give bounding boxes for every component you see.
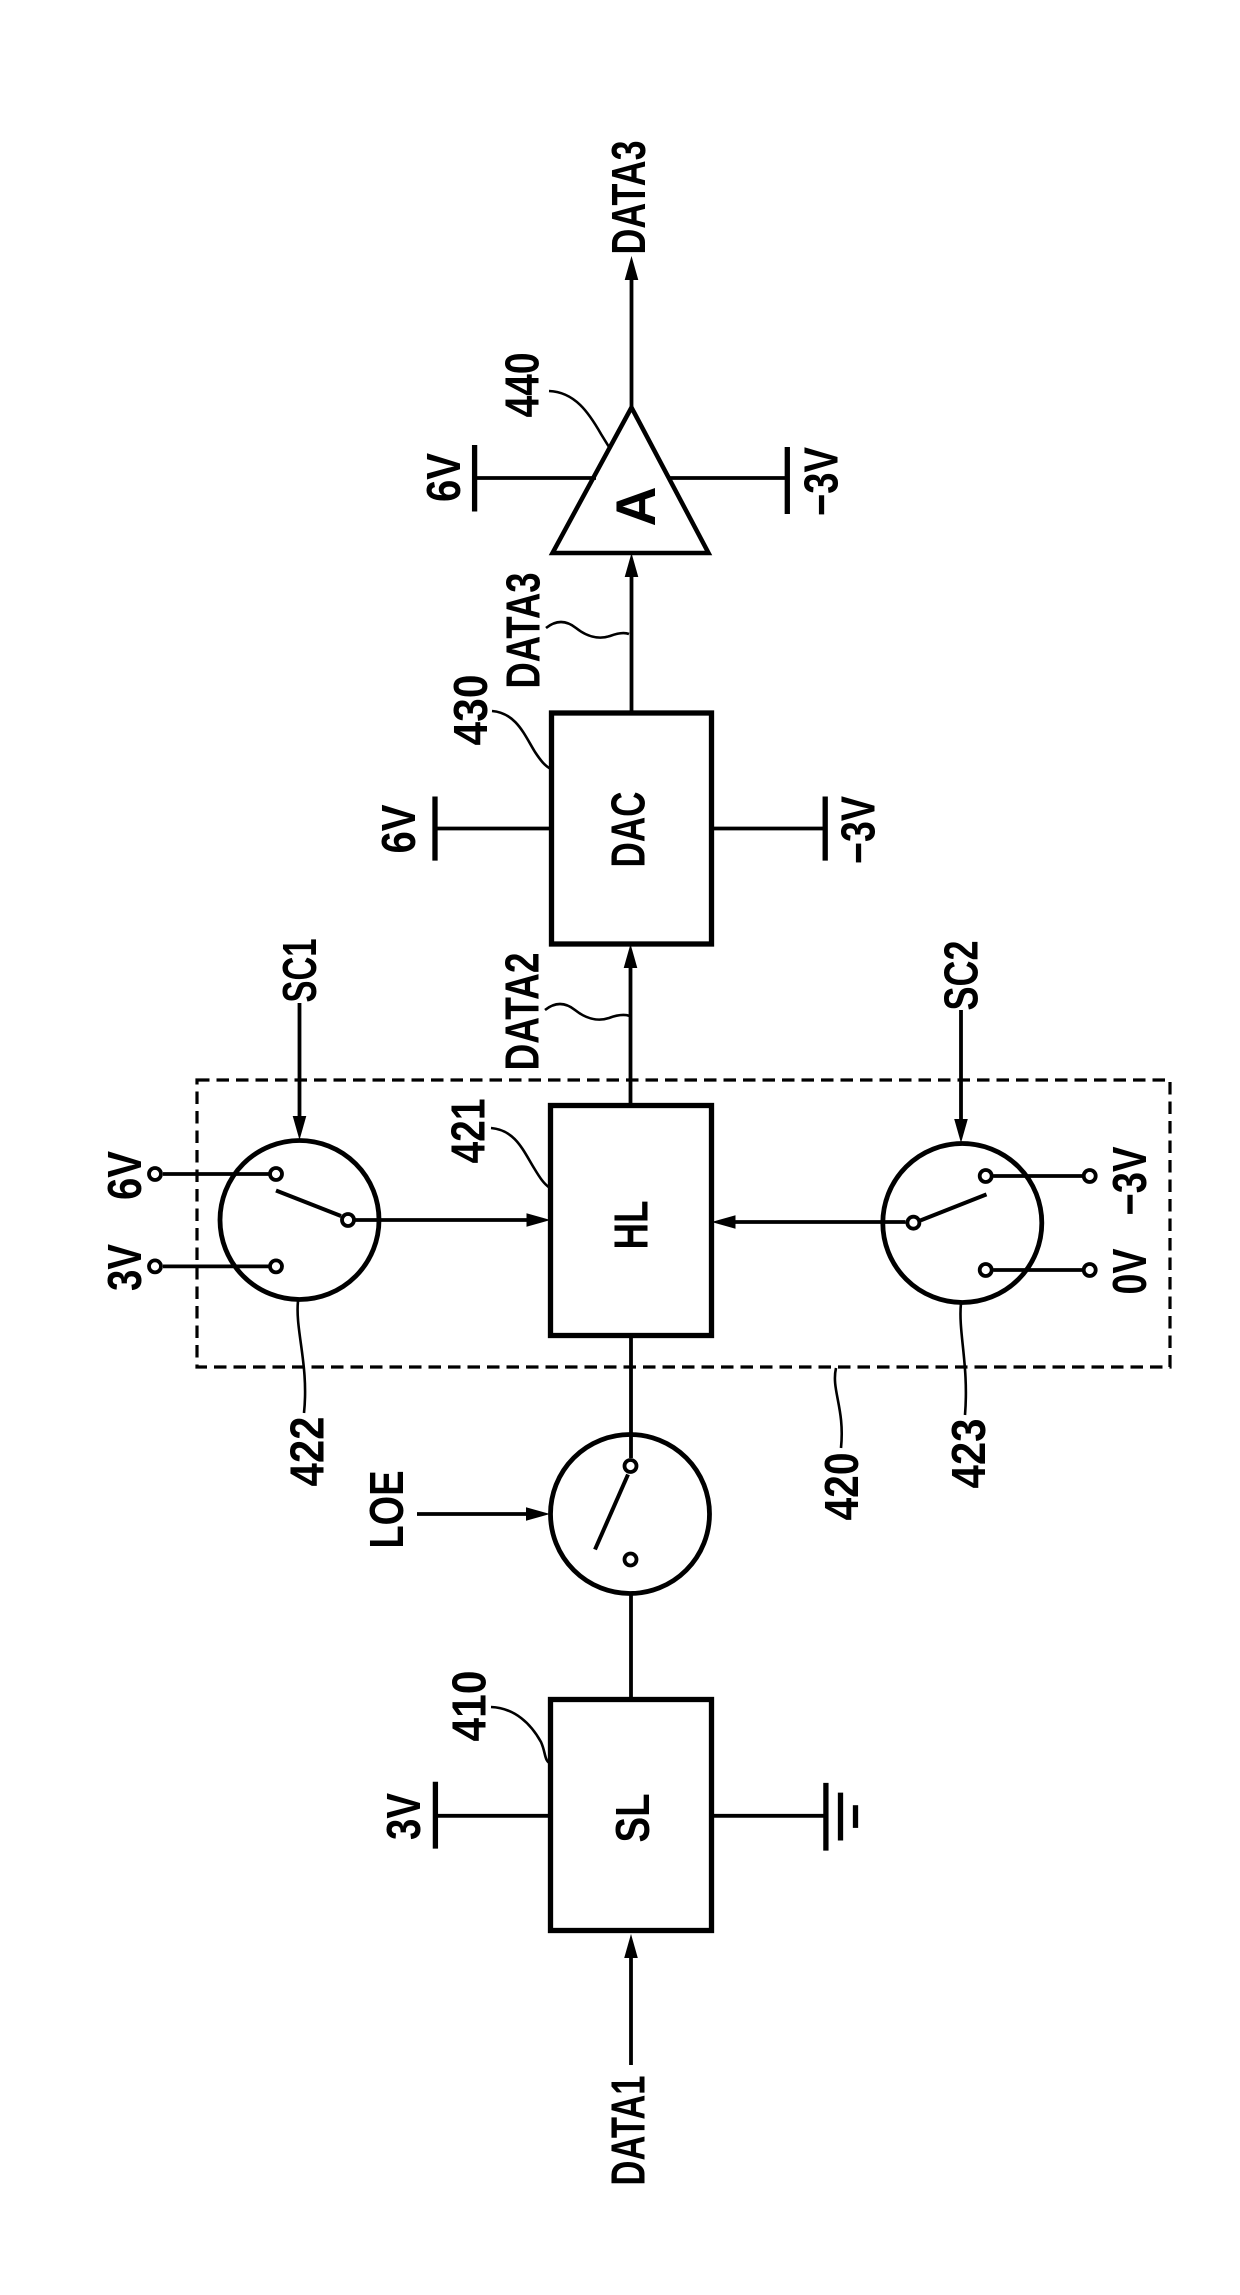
block HL 421	[551, 1106, 712, 1336]
power rail 6V (DAC)	[432, 797, 437, 861]
svg-text:440: 440	[497, 353, 550, 418]
svg-text:HL: HL	[606, 1201, 659, 1250]
power rail 6V (amp)	[472, 445, 477, 512]
svg-text:LOE: LOE	[361, 1471, 414, 1549]
svg-text:SC1: SC1	[274, 939, 327, 1003]
svg-text:A: A	[604, 487, 667, 527]
switch 423 arm	[921, 1194, 987, 1220]
terminal -3V	[1084, 1170, 1096, 1182]
wire 6V to switch 422	[163, 1172, 270, 1176]
svg-text:421: 421	[443, 1099, 496, 1164]
power rail -3V (amp)	[785, 447, 790, 514]
wire 423 to HL	[734, 1220, 906, 1224]
svg-text:423: 423	[943, 1419, 996, 1489]
svg-text:SL: SL	[607, 1794, 660, 1843]
wire DAC -3V supply	[712, 827, 826, 831]
leader 430	[492, 711, 551, 769]
svg-text:−3V: −3V	[832, 796, 885, 864]
contact 422 right (common)	[342, 1214, 354, 1226]
block SL 410	[551, 1700, 712, 1931]
wire LOE to HL	[629, 1336, 633, 1459]
svg-text:DATA2: DATA2	[497, 953, 550, 1071]
svg-text:DAC: DAC	[603, 792, 656, 868]
svg-text:420: 420	[816, 1453, 869, 1521]
switch 423 circle	[883, 1144, 1042, 1303]
leader 423	[960, 1303, 965, 1415]
wire DATA2 HL to DAC	[629, 966, 633, 1106]
block DAC 430	[552, 713, 712, 944]
leader 422	[298, 1301, 306, 1413]
terminal 6V	[149, 1168, 161, 1180]
svg-text:DATA3: DATA3	[498, 573, 551, 689]
contact 422 lower-left (3V)	[270, 1260, 282, 1272]
svg-text:DATA1: DATA1	[603, 2076, 656, 2186]
control arrow SC1	[298, 1003, 302, 1118]
wire SL ground	[712, 1814, 826, 1818]
contact 423 upper-right (-3V)	[980, 1170, 992, 1182]
power rail 3V	[433, 1782, 438, 1849]
switch LOE arm	[595, 1475, 628, 1550]
svg-text:DATA3: DATA3	[603, 141, 656, 255]
contact 423 lower-right (0V)	[980, 1264, 992, 1276]
wire SL to LOE switch	[629, 1567, 633, 1700]
wire 422 to HL	[355, 1218, 529, 1222]
leader 421	[491, 1128, 550, 1188]
switch 422 arm	[276, 1191, 341, 1217]
switch LOE circle	[551, 1435, 710, 1594]
ground bar 3	[853, 1805, 858, 1828]
wire amp 6V supply	[475, 476, 596, 480]
dashed box 420	[197, 1080, 1170, 1367]
svg-text:410: 410	[444, 1671, 497, 1742]
leader 420	[835, 1368, 842, 1448]
contact 422 upper-left (6V)	[270, 1168, 282, 1180]
contact LOE bottom	[625, 1554, 637, 1566]
svg-text:0V: 0V	[1104, 1249, 1157, 1295]
contact LOE top	[625, 1460, 637, 1472]
terminal 0V	[1084, 1264, 1096, 1276]
leader squiggle DATA3	[546, 622, 629, 638]
op-amp A 440 triangle	[553, 408, 709, 554]
svg-text:6V: 6V	[373, 805, 426, 854]
wire -3V to switch 423	[994, 1174, 1083, 1178]
svg-text:3V: 3V	[378, 1793, 431, 1840]
ground bar 2	[838, 1793, 843, 1841]
svg-text:422: 422	[282, 1417, 335, 1487]
contact 423 left (common)	[907, 1217, 919, 1229]
svg-text:−3V: −3V	[796, 447, 849, 516]
svg-text:3V: 3V	[99, 1244, 152, 1291]
svg-text:6V: 6V	[99, 1151, 152, 1200]
wire DATA1 input arrow	[629, 1956, 633, 2065]
svg-text:6V: 6V	[418, 453, 471, 502]
control arrow LOE	[417, 1512, 528, 1516]
wire DAC 6V supply	[435, 827, 552, 831]
power rail -3V (DAC)	[823, 797, 828, 861]
wire amp -3V supply	[670, 476, 787, 480]
terminal 3V	[149, 1260, 161, 1272]
svg-text:−3V: −3V	[1104, 1147, 1157, 1216]
ground bar 1	[823, 1783, 828, 1851]
wire DATA3 DAC to amp	[630, 575, 634, 713]
wire 3V to switch 422	[163, 1265, 270, 1269]
svg-text:SC2: SC2	[936, 941, 989, 1011]
leader squiggle DATA2	[545, 1004, 630, 1020]
switch 422 circle	[220, 1141, 379, 1300]
wire SL 3V supply	[435, 1814, 550, 1818]
wire 0V to switch 423	[994, 1268, 1083, 1272]
leader 440	[549, 391, 609, 447]
leader 410	[491, 1707, 551, 1764]
wire DATA3 output arrow	[630, 278, 634, 408]
control arrow SC2	[959, 1010, 963, 1121]
svg-text:430: 430	[445, 675, 498, 746]
